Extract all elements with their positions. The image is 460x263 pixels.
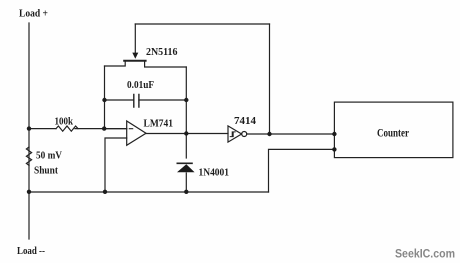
node junction rail diode — [184, 190, 188, 194]
wire right top vertical — [269, 24, 271, 134]
wire 100k to opamp — [75, 128, 127, 130]
svg-text:Shunt: Shunt — [34, 165, 58, 177]
node junction counter upper — [332, 132, 336, 136]
op-amp U1 LM741 triangle — [127, 121, 146, 145]
svg-text:1N4001: 1N4001 — [199, 167, 230, 179]
diode D1 1N4001 triangle — [177, 164, 195, 172]
wire jfet drain lead — [145, 61, 187, 67]
transistor Q1 2N5116 channel bar — [124, 60, 145, 62]
wire jfet gate — [134, 24, 136, 54]
box counter — [334, 102, 453, 158]
node junction rail middle — [103, 190, 107, 194]
svg-text:Counter: Counter — [377, 128, 409, 140]
wire opamp noninverting input — [105, 138, 127, 192]
wire bottom rail — [29, 191, 269, 193]
svg-text:100k: 100k — [55, 116, 74, 128]
svg-text:0.01uF: 0.01uF — [127, 79, 154, 91]
wire counter lower lead — [269, 149, 335, 192]
wire diode to rail — [185, 173, 187, 192]
inverter U2 7414 triangle — [228, 126, 242, 142]
inverter U2 schmitt hysteresis mark — [230, 132, 235, 137]
wire capacitor right lead — [139, 99, 186, 101]
wire top rail — [135, 23, 269, 25]
wire opamp inverting input — [105, 128, 127, 130]
op-amp U1 inverting input minus sign — [129, 128, 132, 130]
wire left loop vertical — [104, 66, 106, 129]
svg-text:Load --: Load -- — [17, 245, 45, 257]
capacitor C1 plates — [134, 95, 139, 108]
node junction 100k right — [102, 126, 106, 130]
wire right loop vertical — [185, 67, 187, 158]
wire 100k input wire — [29, 128, 56, 130]
node junction rail left — [27, 190, 31, 194]
svg-text:2N5116: 2N5116 — [146, 46, 178, 58]
resistor shunt zigzag — [26, 147, 31, 165]
node junction cap right — [184, 98, 188, 102]
svg-text:Load +: Load + — [19, 8, 48, 20]
svg-text:LM741: LM741 — [144, 118, 174, 130]
node junction 100k left — [27, 126, 31, 130]
wire opamp output — [146, 133, 228, 135]
svg-text:SeekIC.com: SeekIC.com — [395, 248, 455, 260]
svg-text:7414: 7414 — [234, 115, 257, 127]
inverter U2 output bubble — [242, 132, 247, 137]
node junction opamp output — [184, 131, 188, 135]
resistor 100k zigzag — [56, 126, 78, 131]
transistor Q1 gate arrowhead — [132, 53, 138, 59]
wire left rail — [28, 23, 30, 239]
node junction inverter output — [267, 132, 271, 136]
svg-text:50 mV: 50 mV — [36, 150, 62, 162]
wire capacitor left lead — [105, 99, 134, 101]
wire jfet source lead — [105, 61, 126, 66]
node junction counter lower — [332, 147, 336, 151]
diode D1 1N4001 cathode bar — [177, 162, 192, 164]
node junction cap left — [102, 98, 106, 102]
wire inverter output — [247, 133, 335, 135]
